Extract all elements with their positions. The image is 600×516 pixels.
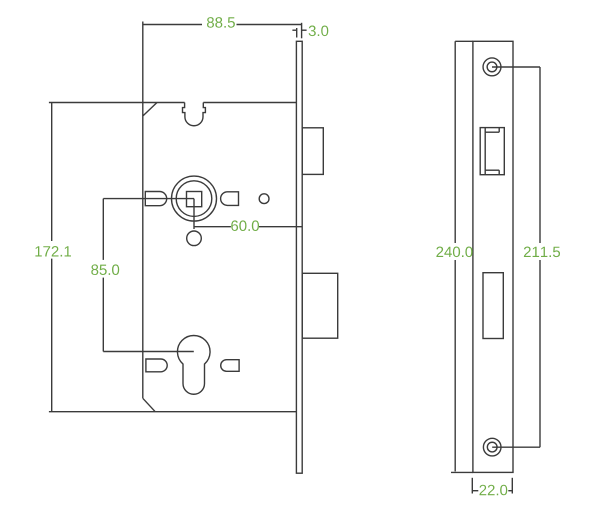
latch opening inner horizontals bbox=[485, 132, 499, 170]
lock case bottom chamfer bbox=[143, 398, 155, 411]
label 85.0 bbox=[91, 264, 119, 275]
latch bolt side view bbox=[302, 128, 323, 175]
bottom screw hole inner bbox=[487, 442, 497, 452]
lower right cylinder screw slot bbox=[221, 360, 239, 372]
dimension 211.5 line bbox=[539, 67, 541, 447]
dimension 3.0 leader stubs bbox=[292, 29, 306, 31]
faceplate side view bbox=[296, 41, 302, 473]
label 22.0 bbox=[480, 485, 508, 496]
faceplate bottom edge extension to 240 dim bbox=[451, 471, 473, 473]
label 3.0 bbox=[309, 26, 329, 37]
upper left handle screw slot bbox=[145, 192, 166, 206]
lock case left edge with 88.5 extension bbox=[142, 22, 144, 399]
spindle square hole bbox=[187, 192, 202, 207]
lower left cylinder screw slot bbox=[146, 359, 167, 372]
deadbolt side view bbox=[302, 273, 338, 338]
spindle follower outer circle bbox=[172, 176, 217, 221]
dimension 172.1 line bbox=[51, 103, 53, 412]
lock case top edge with 172.1 extension line bbox=[49, 102, 297, 104]
dimension 60.0 line bbox=[194, 226, 302, 228]
small hole below spindle bbox=[187, 231, 202, 246]
dimension 211.5 bottom extension bbox=[492, 446, 540, 448]
label 240.0 bbox=[436, 247, 472, 258]
top screw hole outer bbox=[483, 58, 501, 76]
dimension 88.5 line bbox=[143, 24, 302, 26]
small hole right of spindle bbox=[259, 194, 269, 204]
dimension 85.0 top extension to spindle center bbox=[103, 198, 194, 200]
dimension 60.0 vertical from spindle center bbox=[193, 199, 195, 229]
dimension 3.0 left tick bbox=[296, 28, 298, 38]
upper right handle screw slot bbox=[221, 192, 239, 206]
spindle spring notch cutout bbox=[183, 103, 206, 126]
label 172.1 bbox=[35, 246, 71, 257]
label 88.5 bbox=[207, 17, 235, 28]
deadbolt opening front view bbox=[483, 273, 503, 339]
label 211.5 bbox=[524, 247, 560, 258]
dimension 88.5 / 3.0 right extension tick bbox=[301, 23, 303, 39]
faceplate top edge extension to 240 dim bbox=[455, 40, 473, 42]
dimension 85.0 line bbox=[102, 199, 104, 352]
top screw hole inner bbox=[487, 62, 497, 72]
latch opening inner right segments bbox=[498, 128, 500, 175]
dimension 211.5 top extension bbox=[492, 66, 540, 68]
latch opening front view outer bbox=[480, 128, 504, 175]
dimension 240.0 line bbox=[454, 41, 456, 471]
dimension 22.0 line stubs bbox=[472, 490, 512, 492]
dimension 85.0 bottom extension to cylinder center bbox=[103, 351, 194, 353]
dimension 22.0 extension bars bbox=[472, 478, 512, 494]
euro cylinder profile hole bbox=[177, 335, 210, 394]
lock case top chamfer bbox=[143, 103, 157, 117]
latch opening inner left line bbox=[484, 128, 486, 175]
faceplate front view bbox=[473, 41, 513, 472]
lock case bottom edge with 172.1 extension line bbox=[49, 411, 297, 413]
spindle follower inner circle bbox=[176, 181, 212, 217]
bottom screw hole outer bbox=[483, 438, 501, 456]
label 60.0 bbox=[231, 220, 259, 231]
